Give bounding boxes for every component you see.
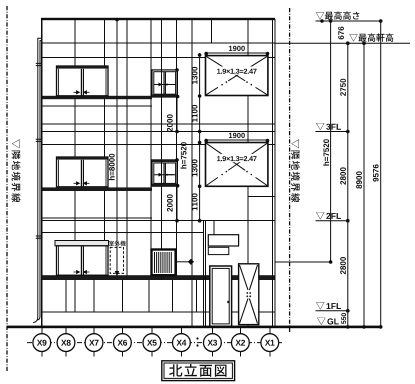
level mark GL [327,318,338,324]
title box [162,361,235,381]
dimension 8900 [356,41,366,328]
section grid line bold [191,19,193,326]
grid bubble X8 [57,334,75,352]
crossed opening 3F 1.9x1.3 [206,56,268,96]
grid bubble X7 [85,334,103,352]
dimension 9576 [373,21,383,329]
grid bubble X1 [261,334,279,352]
crossed opening 2F 1.9x1.3 [206,143,268,187]
level line at h7520 bottom [275,261,331,263]
dimension 1900 2F [204,133,269,143]
boundary label right [291,139,300,202]
grid bubble X3 [204,334,222,352]
grid centerline through bubbles [27,342,284,344]
grid line overlay through middle column [161,19,163,280]
window W2 2F left sliding [57,157,109,187]
roof parapet top line [41,18,275,20]
building right edge wall double [272,19,274,326]
window W1 3F left sliding [57,66,109,96]
title text north elevation [169,364,226,377]
grid bubble X6 [114,334,132,352]
dimension h=7520 right [323,19,332,264]
dimension 2000 3F middle window [167,68,179,133]
balcony slab band 3F [42,96,153,99]
window M1 3F middle [152,70,179,98]
dimension chain 676/2750/2800/2800/550 [338,27,349,329]
grid bubble X2 [232,334,250,352]
entrance alcove wall edge double [202,221,204,327]
balcony slab band 2F [42,187,153,191]
grid ticks below bubbles [42,352,270,357]
dimension h=8000 internal [109,18,119,277]
label h=7520 internal [181,142,187,168]
dimension chain 1300/1100 right of middle column [192,53,202,223]
facade vertical joint lines [66,19,248,326]
window W3 1F left sliding with shutter box [55,241,109,276]
grid bubble X5 [143,334,161,352]
outdoor AC unit dashed box [110,247,123,273]
grid ticks above bubbles [42,328,270,334]
dimension 2000 2F middle window [167,158,179,222]
drain pipe left [33,38,41,322]
entrance door D1 [210,266,232,326]
level line max eave height [275,42,410,44]
building left edge wall [41,19,43,326]
louver window 1F middle [152,250,195,276]
small box above door [208,247,229,254]
meter box above door [208,235,238,246]
boundary line left (dash-dot) [6,6,8,372]
grid bubble X4 [173,334,191,352]
balcony slab band 1F [42,275,275,280]
grid break colon [196,337,198,339]
level line max height [316,19,383,23]
eave level facade line [42,42,275,44]
window M2 2F middle [152,160,179,188]
louver leader and diamond node [176,261,191,263]
boundary line right (dash-dot) [289,8,291,332]
louver panel with X cross 1F [239,264,259,325]
outdoor AC unit label [109,241,126,246]
level mark 1FL [316,303,348,311]
level mark 2FL [316,213,348,221]
level mark 3FL [316,124,348,132]
grid bubble X9 [33,334,51,352]
boundary label left [12,139,21,202]
facade horizontal joint lines [42,58,275,313]
dimension 1900 3F [204,46,269,56]
ground line GL [7,326,382,329]
